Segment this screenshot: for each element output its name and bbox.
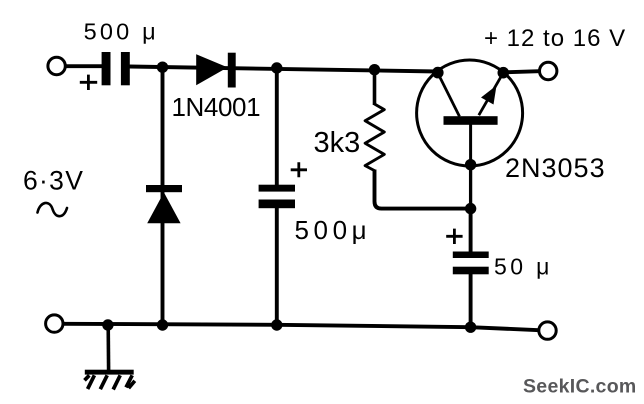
svg-text:SeekIC.com: SeekIC.com (523, 376, 637, 398)
wire C2 to bottom rail (275, 208, 279, 326)
polarity + for C2 (291, 162, 307, 177)
ground stub wire (106, 325, 110, 370)
svg-text:1N4001: 1N4001 (172, 92, 261, 122)
ground bar (85, 370, 134, 375)
svg-text:+ 12 to 16 V: + 12 to 16 V (484, 25, 626, 52)
node B junction (D1/C2) (271, 62, 282, 73)
wire node F to C3 (469, 209, 473, 254)
terminal bottom-left (46, 315, 63, 332)
wire node A down through D2 to bottom rail (161, 67, 165, 325)
svg-text:500μ: 500μ (295, 215, 372, 245)
wire resistor bottom to node F (corner) (375, 170, 471, 209)
diode D2 cathode bar (146, 185, 182, 192)
resistor R1 3k3 zigzag (365, 70, 384, 171)
node J junction (D2 bottom) (157, 319, 168, 330)
wire top rail: terminal to C1 (66, 64, 103, 68)
diode D1 anode triangle (196, 54, 227, 85)
transistor Q1 base bar (444, 116, 498, 125)
svg-text:2N3053: 2N3053 (505, 153, 606, 183)
node G junction (base lead at circle bottom) (465, 159, 476, 170)
wire node C to resistor top (373, 70, 377, 105)
transistor Q1 emitter lead (479, 73, 504, 116)
capacitor C2 top plate (259, 185, 295, 192)
node I junction (ground tap) (102, 319, 113, 330)
AC sine symbol (38, 203, 68, 216)
bottom rail wire (64, 324, 540, 330)
node D junction (collector on rail) (432, 67, 444, 79)
wire emitter node to output terminal (503, 71, 539, 72)
wire C3 to bottom rail (469, 272, 473, 327)
terminal bottom-right (539, 322, 556, 339)
wire node B down to C2 (275, 68, 279, 186)
polarity + for C1 (80, 75, 97, 90)
polarity + for C3 (446, 229, 462, 244)
capacitor C1 left plate (102, 52, 111, 85)
svg-text:500 μ: 500 μ (84, 19, 159, 45)
diode D1 cathode bar (228, 53, 236, 88)
terminal IN top-left (48, 57, 65, 74)
ground hatch strokes (85, 375, 135, 389)
transistor Q1 collector lead (438, 73, 460, 117)
transistor Q1 base lead down (469, 125, 472, 165)
capacitor C1 right plate (121, 52, 130, 85)
terminal OUT top-right (540, 62, 557, 79)
capacitor C3 top plate (453, 252, 489, 259)
node H junction (C3 bottom) (465, 322, 476, 333)
svg-text:3k3: 3k3 (314, 127, 361, 159)
wire node G to node F (469, 165, 472, 209)
capacitor C2 bottom plate (259, 200, 295, 209)
node K junction (C2 bottom) (271, 319, 282, 330)
transistor Q1 body circle (417, 60, 523, 166)
node C junction (resistor top) (369, 64, 380, 75)
node E junction (emitter on rail) (498, 67, 510, 79)
node F junction (base / R1 / C3) (465, 203, 476, 214)
node A junction (C1/D1/D2) (157, 61, 168, 72)
diode D2 anode triangle (147, 192, 180, 223)
svg-text:50 μ: 50 μ (494, 253, 553, 279)
capacitor C3 bottom plate (453, 267, 489, 275)
svg-text:6·3V: 6·3V (23, 165, 84, 195)
wire top rail: C1 to transistor (130, 67, 438, 72)
transistor Q1 emitter arrowhead (481, 86, 497, 105)
